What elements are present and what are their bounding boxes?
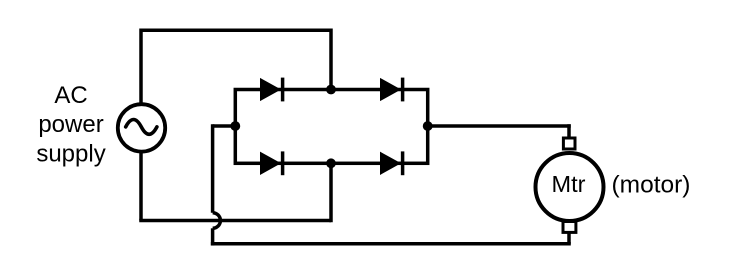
wire: vertical from top wire down to AC source top terminal (139, 29, 143, 105)
label: AC power supply (36, 82, 105, 167)
label: (motor) (612, 171, 691, 198)
wire: top horizontal from AC source to bridge top (141, 29, 331, 33)
wire: vertical from top wire down to bridge top node (329, 29, 333, 90)
svg-text:power: power (38, 111, 103, 138)
junction node: bridge left (230, 121, 240, 131)
diode D3 (bottom-left, pointing right) (261, 151, 283, 175)
svg-text:supply: supply (36, 140, 105, 167)
diode D1 (top-left, pointing right) (261, 78, 283, 102)
wire: lower horizontal from AC source to bridge bottom node (139, 219, 331, 223)
label: Mtr (552, 171, 586, 197)
AC source V1 (circle with sine) (118, 104, 165, 151)
junction node: bridge bottom (326, 158, 336, 168)
svg-text:AC: AC (54, 82, 87, 109)
diode D2 (top-right, pointing right) (381, 78, 403, 102)
motor bottom terminal (square) (563, 222, 576, 233)
wire: vertical from bridge left node down with crossover hop over lower bus (213, 124, 221, 245)
wire: vertical stub from motor bottom terminal to bottom bus (567, 233, 571, 244)
wire: horizontal from bridge right node to motor top (428, 124, 571, 128)
wire: vertical from bridge bottom node down to lower bus (329, 163, 333, 222)
wire: vertical stub down to motor top terminal (567, 124, 571, 137)
motor top terminal (square) (563, 138, 575, 149)
junction node: bridge top (326, 85, 336, 95)
wire: short horizontal from bridge left node going left (213, 124, 236, 128)
wire: vertical from AC source bottom terminal down to lower bus (139, 152, 143, 221)
bridge rectifier loop (rectangle) (235, 90, 427, 164)
svg-text:Mtr: Mtr (552, 171, 586, 197)
diode D4 (bottom-right, pointing right) (381, 151, 403, 175)
svg-text:(motor): (motor) (612, 171, 691, 198)
motor M1 (circle) (536, 153, 604, 221)
junction node: bridge right (423, 121, 433, 131)
wire: bottom horizontal from hop wire to motor bottom terminal (211, 242, 571, 246)
